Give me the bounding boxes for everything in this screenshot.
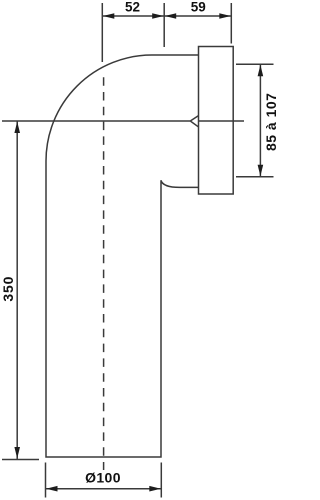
svg-text:350: 350 xyxy=(0,276,16,302)
top dimension line xyxy=(102,15,231,17)
bottom dimension line xyxy=(46,488,162,490)
horizontal centerline left segment xyxy=(2,120,190,122)
arrow 52 left xyxy=(103,13,115,19)
bottom dimension extension left xyxy=(45,463,47,498)
arrow 85a107 up xyxy=(258,65,264,77)
right dimension extension top xyxy=(236,63,274,65)
extension line middle xyxy=(163,3,165,47)
extension line at pipe centerline xyxy=(101,3,103,62)
right dimension extension bottom xyxy=(236,176,274,178)
arrow 350 up xyxy=(14,122,20,134)
svg-text:85 à 107: 85 à 107 xyxy=(263,93,279,152)
open arrowhead on centerline xyxy=(190,116,198,127)
left dimension bottom extension xyxy=(2,459,39,461)
arrow 59 right xyxy=(219,13,231,19)
right dimension line xyxy=(259,64,261,176)
svg-text:Ø100: Ø100 xyxy=(85,469,121,485)
arrow 85a107 down xyxy=(258,165,264,177)
extension line socket right xyxy=(230,3,232,44)
socket rectangle xyxy=(199,47,234,195)
pipe body outline xyxy=(46,55,199,457)
svg-text:52: 52 xyxy=(125,0,140,14)
arrow diam100 left xyxy=(46,486,58,492)
arrow 52 right xyxy=(152,13,164,19)
arrow 59 left xyxy=(165,13,177,19)
arrow 350 down xyxy=(14,447,20,459)
svg-text:59: 59 xyxy=(191,0,206,14)
vertical dashed centerline xyxy=(103,77,105,470)
bottom dimension extension right xyxy=(160,463,162,498)
horizontal centerline right segment xyxy=(199,120,245,122)
left dimension line 350 xyxy=(16,121,18,459)
arrow diam100 right xyxy=(149,486,161,492)
